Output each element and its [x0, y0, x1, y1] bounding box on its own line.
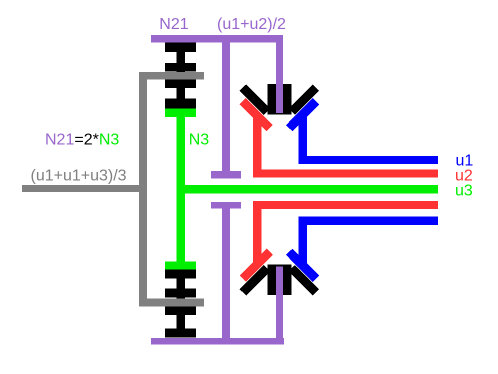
svg-text:N3: N3	[189, 132, 210, 149]
output shaft u3 center line (green)	[177, 185, 439, 194]
lower gear mesh bar 4	[165, 329, 196, 338]
svg-text:(u1+u2)/2: (u1+u2)/2	[217, 16, 286, 33]
lower bevel black diagonal left	[243, 268, 267, 292]
annulus lower T bar (purple)	[211, 202, 241, 209]
shaft u2 horizontal upper (red)	[253, 169, 438, 177]
svg-text:N21: N21	[159, 16, 188, 33]
svg-text:N21=2*N3: N21=2*N3	[45, 132, 119, 149]
sun gear N3 bar upper (green)	[165, 109, 196, 118]
side gear shaft u1 vertical lower (blue)	[299, 217, 308, 265]
side gear shaft u2 vertical upper (red)	[253, 115, 262, 177]
lower gear mesh bar 1	[165, 270, 196, 279]
annulus N21 top bar (purple)	[151, 35, 283, 42]
annulus N21 bottom bar (purple)	[151, 338, 284, 345]
shaft u2 horizontal lower (red)	[253, 201, 438, 209]
planet gear P' (lower, black) shaft neck	[177, 270, 186, 338]
gear N3 mesh bar top	[165, 80, 196, 89]
lower bevel black diagonal right	[292, 268, 316, 292]
sun shaft vertical (green)	[177, 117, 186, 262]
lower gear mesh bar 3	[165, 307, 196, 316]
annulus right stem upper (purple)	[276, 42, 283, 113]
carrier vertical (gray)	[139, 72, 147, 306]
gear N3 mesh bar bottom	[165, 99, 196, 109]
side gear diagonal lower (red)	[243, 252, 270, 279]
planet gear P (upper, black) shaft neck	[177, 43, 186, 109]
side gear diagonal lower (blue)	[289, 252, 316, 279]
gear N21 mesh bar bottom	[165, 63, 196, 72]
carrier input line (u1+u1+u3)/3 (gray)	[22, 185, 147, 192]
annulus mid stem upper (purple)	[222, 42, 230, 171]
annulus right stem lower (purple)	[276, 267, 283, 339]
shaft u1 horizontal lower (blue)	[299, 217, 439, 225]
sun gear N3 bar lower (green)	[165, 262, 196, 270]
side gear shaft u1 vertical upper (blue)	[299, 115, 308, 164]
lower bevel ring gear U (black)	[268, 264, 292, 295]
carrier top arm (gray)	[139, 72, 204, 80]
annulus mid stem lower (purple)	[222, 209, 230, 339]
side gear diagonal upper (red)	[243, 101, 270, 128]
annulus upper T bar (purple)	[211, 171, 241, 179]
upper bevel ring gear U (black)	[268, 84, 292, 115]
lower gear mesh bar 2	[165, 289, 196, 298]
svg-text:(u1+u1+u3)/3: (u1+u1+u3)/3	[31, 167, 127, 184]
side gear shaft u2 vertical lower (red)	[253, 201, 262, 265]
side gear diagonal upper (blue)	[289, 101, 316, 128]
upper bevel black diagonal left	[243, 88, 267, 112]
carrier bottom arm (gray)	[139, 299, 204, 307]
svg-text:u3: u3	[455, 183, 473, 200]
shaft u1 horizontal upper (blue)	[299, 156, 439, 164]
upper bevel black diagonal right	[292, 88, 316, 112]
gear N21 mesh bar top	[165, 43, 196, 53]
